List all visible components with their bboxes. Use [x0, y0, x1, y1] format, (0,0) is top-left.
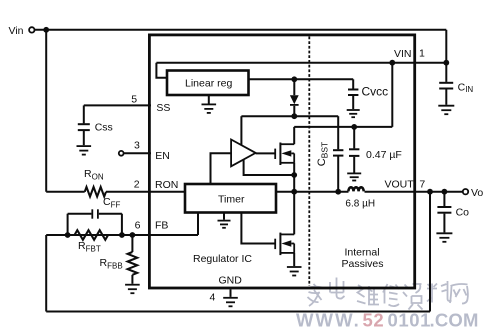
svg-text:EN: EN	[155, 150, 170, 162]
wire: driver return to SW	[244, 160, 295, 175]
svg-text:Co: Co	[456, 206, 470, 218]
wire: FB riser into timer	[197, 213, 199, 236]
Vin input terminal	[29, 27, 34, 32]
ground for Linear reg	[208, 95, 210, 104]
wire: SS pin lead	[84, 104, 151, 106]
ground for Q2	[287, 267, 302, 276]
dashed separator internal passives	[308, 37, 310, 287]
wire: CFF left riser	[67, 214, 69, 235]
junction Co tap	[442, 189, 448, 195]
svg-text:0.47 µF: 0.47 µF	[366, 149, 402, 161]
junction SW vertical	[291, 189, 297, 195]
svg-text:5: 5	[131, 93, 137, 105]
wire: CFF top right lead	[99, 213, 122, 215]
op-amp driver U1 (gate driver triangle)	[231, 140, 256, 167]
svg-text:RFBB: RFBB	[100, 257, 123, 271]
wire: linear reg output to Cvcc	[249, 78, 354, 80]
junction VIN/CIN	[443, 60, 449, 66]
svg-text:1: 1	[419, 48, 425, 60]
wire: driver input from timer	[211, 153, 232, 184]
block Timer	[185, 184, 276, 213]
block Linear reg	[167, 71, 249, 96]
diode D1 bootstrap	[293, 79, 295, 95]
svg-text:GND: GND	[219, 275, 243, 287]
ground for Timer	[223, 213, 225, 220]
regulator IC outer box	[149, 35, 414, 288]
svg-text:CBST: CBST	[316, 142, 330, 166]
svg-text:FB: FB	[155, 220, 168, 232]
wire: CFF right riser	[121, 214, 123, 235]
svg-text:Timer: Timer	[218, 193, 245, 205]
svg-text:Css: Css	[95, 121, 113, 133]
junction CFF left	[65, 232, 71, 238]
wire: RFBB top lead	[131, 235, 133, 252]
svg-text:Vin: Vin	[9, 25, 24, 37]
resistor RFBT	[75, 230, 109, 240]
svg-text:4: 4	[210, 291, 216, 303]
junction VIN/0.47uF drop	[389, 60, 395, 66]
wire: RON lead left	[46, 191, 84, 193]
wire: VOUT line to Vo terminal	[365, 191, 463, 193]
svg-text:Cvcc: Cvcc	[362, 84, 389, 98]
capacitor Cvcc	[348, 90, 358, 96]
svg-text:Linear reg: Linear reg	[185, 77, 232, 89]
junction feedback riser	[427, 189, 433, 195]
wire: bootstrap net to CBST	[241, 115, 338, 117]
capacitor CIN	[439, 83, 453, 89]
Vo output terminal	[463, 189, 468, 194]
transistor Q1 high-side MOSFET	[256, 152, 275, 154]
junction 0.47uF tap	[351, 124, 357, 130]
wire: EN pin lead	[124, 152, 151, 154]
svg-text:VIN: VIN	[394, 48, 412, 60]
wire: Q2 source to ground	[293, 253, 295, 266]
wire: Css riser	[83, 105, 85, 123]
ground for 0.47 uF	[347, 173, 361, 180]
wire: Cvcc bottom lead	[352, 96, 354, 109]
svg-text:6: 6	[135, 220, 141, 232]
wire: feedback right riser from VOUT	[429, 192, 431, 312]
wire: VIN net top inside box	[156, 62, 446, 64]
inductor L1 6.8 uH	[348, 187, 363, 191]
EN terminal circle	[119, 151, 124, 156]
ground for RFBB	[125, 285, 140, 294]
resistor RON	[85, 187, 106, 197]
wire: Css bottom lead	[83, 131, 85, 145]
wire: SW line from timer edge to inductor	[276, 191, 349, 193]
wire: feedback left riser	[45, 235, 47, 312]
transistor Q2 low-side MOSFET	[274, 239, 276, 249]
svg-text:RON: RON	[155, 179, 178, 191]
wire: VIN link riser	[391, 63, 393, 127]
capacitor CFF	[92, 209, 98, 218]
svg-text:RON: RON	[84, 168, 104, 182]
svg-text:.COM: .COM	[430, 309, 479, 329]
ground for Cvcc	[347, 110, 360, 117]
svg-text:RFBT: RFBT	[78, 240, 101, 254]
wire: CIN top riser	[445, 30, 447, 63]
svg-text:Vo: Vo	[471, 187, 483, 199]
svg-text:Regulator IC: Regulator IC	[193, 253, 252, 265]
junction driver return / SW	[291, 172, 297, 178]
GND pin lead	[230, 289, 232, 297]
wire: CIN lead	[445, 63, 447, 82]
wire: Vin top rail to CIN corner	[35, 29, 447, 31]
wire: VIN link to 0.47uF	[294, 126, 392, 128]
svg-text:3: 3	[134, 139, 140, 151]
wire: Q1 drain riser to VIN link	[293, 127, 295, 144]
wire: Cvcc riser	[352, 79, 354, 88]
capacitor 0.47 uF	[353, 127, 355, 148]
svg-text:Internal: Internal	[345, 247, 380, 259]
capacitor Co	[443, 192, 445, 206]
svg-text:VOUT: VOUT	[385, 179, 415, 191]
svg-text:2: 2	[134, 179, 140, 191]
wire: RFBB bottom lead	[131, 275, 133, 284]
wire: FB net from divider to pin 6	[46, 234, 198, 236]
svg-text:6.8 µH: 6.8 µH	[345, 198, 375, 209]
junction CBST / SW	[335, 189, 341, 195]
junction diode cathode / bootstrap node	[291, 113, 297, 119]
wire: SW node vertical Q1 source to Q2 drain	[293, 163, 295, 235]
junction RFBB tap	[130, 232, 136, 238]
svg-text:7: 7	[419, 178, 425, 190]
ground for GND pin	[223, 298, 238, 307]
watermark url www.520101.com	[296, 309, 479, 329]
wire: CIN bottom lead	[445, 89, 447, 104]
svg-text:Passives: Passives	[342, 258, 384, 270]
svg-text:CFF: CFF	[103, 196, 120, 210]
ground for Css	[77, 146, 92, 155]
wire: VIN corner riser to linear reg	[156, 63, 167, 78]
svg-text:CIN: CIN	[458, 82, 474, 95]
junction diode anode	[291, 76, 297, 82]
ground for CIN	[438, 106, 454, 115]
junction at Vin	[43, 27, 49, 33]
wire: RON lead right to pin 2	[106, 191, 185, 193]
capacitor CBST	[337, 116, 339, 149]
svg-text:SS: SS	[156, 102, 170, 114]
wire: timer to Q2 gate	[241, 213, 274, 244]
capacitor Css	[78, 124, 90, 130]
junction CFF right	[119, 232, 125, 238]
wire: CFF top left lead	[68, 213, 92, 215]
resistor RFBB	[128, 252, 138, 275]
wire: driver supply riser	[240, 116, 242, 146]
wire: left Vin rail down to RON	[45, 30, 47, 192]
watermark chinese text 家电维修资料网	[307, 278, 468, 310]
ground for Co	[436, 233, 452, 242]
wire: feedback bottom return	[46, 311, 430, 313]
